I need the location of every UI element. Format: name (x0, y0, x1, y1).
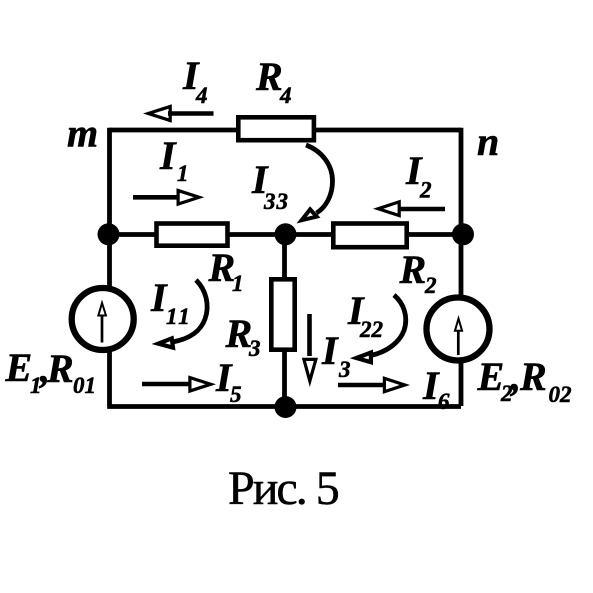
svg-text:02: 02 (549, 382, 572, 407)
svg-text:I: I (321, 328, 339, 373)
svg-text:4: 4 (195, 83, 208, 108)
svg-text:I: I (159, 133, 177, 178)
svg-text:22: 22 (359, 317, 383, 342)
svg-text:11: 11 (166, 304, 192, 329)
svg-text:R: R (255, 54, 283, 99)
svg-text:1: 1 (177, 161, 189, 186)
svg-text:2: 2 (424, 273, 437, 298)
svg-text:E: E (5, 345, 33, 390)
svg-text:Рис. 5: Рис. 5 (228, 462, 339, 515)
svg-text:2: 2 (419, 178, 432, 203)
svg-text:3: 3 (248, 336, 261, 361)
svg-text:m: m (67, 111, 98, 156)
svg-text:5: 5 (230, 382, 242, 407)
svg-text:4: 4 (279, 83, 292, 108)
svg-text:R: R (46, 346, 74, 391)
svg-text:1: 1 (232, 271, 244, 296)
svg-text:3: 3 (338, 357, 351, 382)
svg-text:n: n (477, 119, 499, 164)
svg-text:01: 01 (73, 373, 96, 398)
svg-text:R: R (519, 354, 547, 399)
svg-text:6: 6 (438, 389, 450, 414)
svg-text:33: 33 (263, 189, 289, 214)
svg-text:R: R (399, 247, 427, 292)
